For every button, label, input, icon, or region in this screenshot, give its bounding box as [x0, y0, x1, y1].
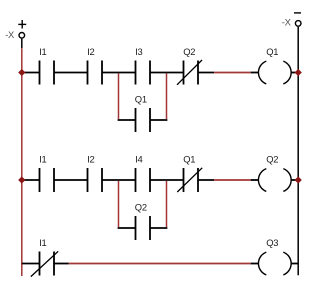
- wire branch2 left stub: [118, 227, 136, 229]
- wire rung1 energized segment to coil: [214, 72, 251, 74]
- wire rung1 Q2 lead-out: [198, 72, 214, 74]
- svg-text:I2: I2: [87, 154, 94, 165]
- contact Q1 branch 1: [136, 108, 151, 132]
- wire rung3 coil to right rail: [291, 263, 299, 265]
- NC contact Q2 rung 1: [177, 60, 202, 85]
- svg-text:Q2: Q2: [135, 202, 147, 213]
- wire rung3 rail to I1: [22, 263, 40, 265]
- branch1 left vertical wire (energized): [118, 73, 120, 119]
- contact I4 rung 2: [136, 168, 151, 192]
- contact I2 rung 1: [88, 61, 103, 85]
- svg-text:Q2: Q2: [183, 46, 195, 57]
- left rail stub wire: [21, 39, 23, 49]
- wire rung2 I1 to I2: [54, 179, 88, 181]
- branch2 left vertical wire (energized): [118, 181, 120, 227]
- svg-text:I1: I1: [39, 237, 46, 248]
- svg-text:I1: I1: [39, 154, 46, 165]
- junction diamond left rail rung 2: [18, 176, 25, 183]
- svg-text:-X: -X: [282, 17, 292, 28]
- wire rung1 I3 to Q2 (node B): [150, 72, 184, 74]
- wire rung1 I1 to I2: [54, 72, 88, 74]
- NC contact I1 rung 3: [31, 251, 58, 276]
- branch2 right vertical wire (energized): [166, 181, 168, 227]
- junction diamond right rail rung 2: [295, 176, 302, 183]
- wire rung1 coil lead-in: [251, 72, 259, 74]
- terminal circle right rail -X: [295, 21, 301, 27]
- wire rung2 coil lead-in: [251, 179, 259, 181]
- svg-text:Q1: Q1: [135, 94, 147, 105]
- svg-text:I1: I1: [39, 46, 46, 57]
- svg-text:I4: I4: [135, 154, 142, 165]
- contact I1 rung 2: [40, 168, 55, 192]
- svg-text:Q3: Q3: [266, 237, 278, 248]
- contact I1 rung 1: [40, 61, 55, 85]
- svg-text:-X: -X: [5, 29, 15, 40]
- branch1 right vertical wire (energized): [166, 73, 168, 119]
- coil Q1 rung 1: [258, 61, 291, 84]
- wire branch1 left stub: [118, 119, 136, 121]
- wire rung1 coil to right rail: [291, 72, 299, 74]
- wire branch2 right stub: [150, 227, 167, 229]
- minus terminal symbol: [294, 12, 301, 14]
- wire rung3 I1 lead-out: [54, 263, 69, 265]
- coil Q3 rung 3: [258, 252, 291, 275]
- svg-text:I2: I2: [87, 46, 94, 57]
- svg-text:Q2: Q2: [266, 154, 278, 165]
- svg-text:Q1: Q1: [266, 46, 278, 57]
- contact Q2 branch 2: [136, 216, 151, 240]
- wire rung1 I2 to I3 (node A): [102, 72, 136, 74]
- left rail wire (energized): [21, 48, 23, 276]
- wire rung2 I2 to I4 (node C): [102, 179, 136, 181]
- wire rung2 coil to right rail: [291, 179, 299, 181]
- wire rung2 rail to I1: [22, 179, 40, 181]
- wire rung2 Q1 lead-out: [198, 179, 214, 181]
- right rail wire: [297, 27, 299, 276]
- contact I2 rung 2: [88, 168, 103, 192]
- svg-text:Q1: Q1: [183, 154, 195, 165]
- wire rung2 I4 to Q1 (node D): [150, 179, 184, 181]
- wire branch1 right stub: [150, 119, 167, 121]
- wire rung3 coil lead-in: [251, 263, 259, 265]
- wire rung1 rail to I1: [22, 72, 40, 74]
- junction diamond right rail rung 1: [295, 69, 302, 76]
- plus terminal symbol: [18, 20, 26, 29]
- svg-text:I3: I3: [135, 46, 142, 57]
- wire rung3 energized segment to coil: [69, 263, 251, 265]
- coil Q2 rung 2: [258, 169, 291, 192]
- terminal circle left rail -X: [19, 33, 25, 39]
- wire rung2 energized segment to coil: [214, 179, 251, 181]
- contact I3 rung 1: [136, 61, 151, 85]
- junction diamond left rail rung 1: [18, 69, 25, 76]
- NC contact Q1 rung 2: [177, 168, 202, 192]
